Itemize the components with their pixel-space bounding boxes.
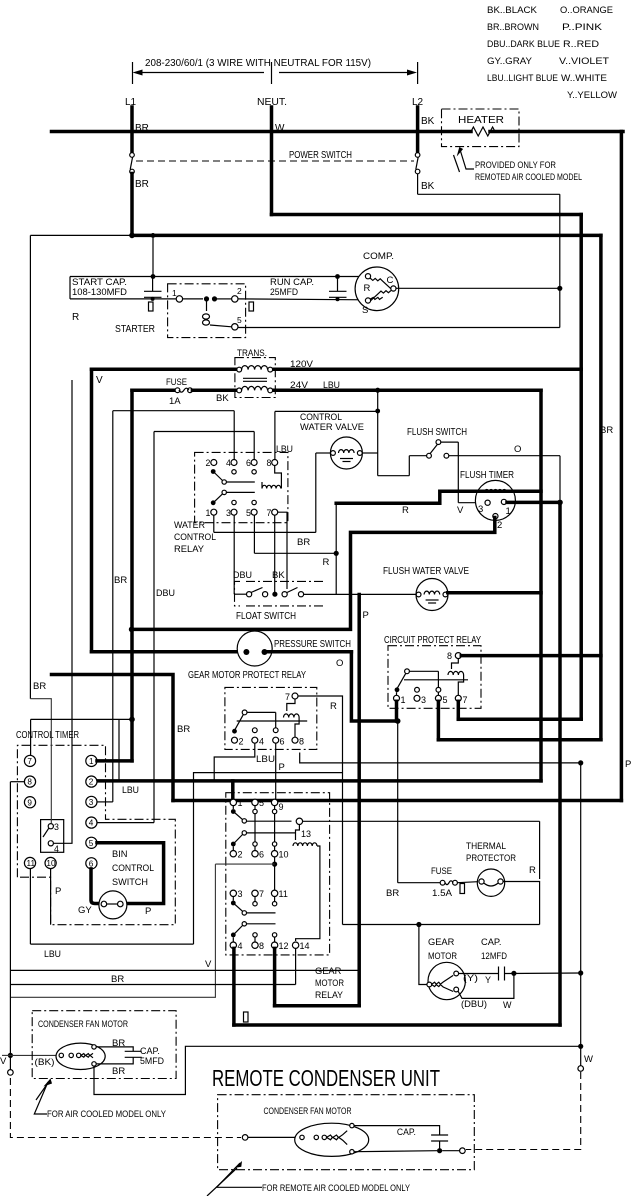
svg-text:(Y): (Y) xyxy=(463,973,478,983)
wire NEUT vertical right x=581.2 xyxy=(579,215,583,720)
heater resistor R xyxy=(471,127,495,136)
flush timer coil xyxy=(485,489,507,492)
gear motor relay terminals 2 6 10 xyxy=(230,851,236,857)
svg-text:BK..BLACK: BK..BLACK xyxy=(487,5,538,16)
svg-text:8: 8 xyxy=(267,458,272,468)
dashed V link to remote unit xyxy=(10,1078,241,1138)
water control relay pin numbers xyxy=(206,458,272,518)
control timer terminals 1-6 xyxy=(86,755,97,766)
svg-text:6: 6 xyxy=(280,737,285,747)
wire timer 5 to bin switch xyxy=(97,843,164,904)
svg-text:R: R xyxy=(364,283,371,294)
svg-text:BR: BR xyxy=(177,724,190,735)
gear motor protect relay box xyxy=(225,687,317,749)
svg-text:108-130MFD: 108-130MFD xyxy=(72,287,127,297)
gear motor protect relay terminal 7 xyxy=(292,693,298,699)
svg-text:3: 3 xyxy=(478,504,483,515)
run capacitor xyxy=(329,290,347,292)
water control relay box xyxy=(195,452,288,522)
svg-text:BR: BR xyxy=(600,425,613,436)
svg-text:1: 1 xyxy=(206,508,211,518)
svg-text:CONDENSER FAN MOTOR: CONDENSER FAN MOTOR xyxy=(38,1019,128,1029)
svg-text:1: 1 xyxy=(89,757,94,766)
svg-text:7: 7 xyxy=(463,695,468,705)
wire top bus y=131.5 with heater resistor xyxy=(52,130,472,134)
svg-text:BR: BR xyxy=(297,537,310,548)
svg-text:CIRCUIT PROTECT RELAY: CIRCUIT PROTECT RELAY xyxy=(384,635,481,646)
flush water valve coil U2 xyxy=(416,579,448,611)
water control relay terminals 2 4 6 8 xyxy=(211,460,217,466)
svg-text:R: R xyxy=(402,505,409,516)
wire L1/BR bus y=235.4 xyxy=(132,234,601,238)
wire timer 3 xyxy=(97,801,113,803)
remote cap xyxy=(354,1126,440,1135)
svg-text:W: W xyxy=(503,1000,512,1010)
wire P net bottom run xyxy=(10,969,359,971)
svg-text:GEAR: GEAR xyxy=(428,937,455,947)
svg-text:5: 5 xyxy=(443,695,448,705)
svg-text:208-230/60/1 (3 WIRE WITH NEUT: 208-230/60/1 (3 WIRE WITH NEUTRAL FOR 11… xyxy=(145,58,371,69)
svg-text:GY..GRAY: GY..GRAY xyxy=(487,56,533,67)
fuse 1.5A F2 xyxy=(398,882,440,884)
starter terminal 2 xyxy=(232,296,238,302)
wire BR branch to water relay 4 xyxy=(113,410,234,412)
wire stub x119 xyxy=(118,719,120,781)
flush switch S1 xyxy=(436,440,441,445)
dimension annotation 208-230/60/1 xyxy=(133,58,418,84)
water control relay contact A xyxy=(211,469,216,474)
node V terminal xyxy=(8,1053,13,1058)
wire cpr8 to W node xyxy=(300,753,581,763)
wire 24V to flush switch xyxy=(378,475,410,477)
wire LBU bottom run to timer 2 xyxy=(95,779,541,783)
svg-text:LBU..LIGHT BLUE: LBU..LIGHT BLUE xyxy=(487,73,558,84)
svg-text:BR: BR xyxy=(33,681,46,692)
wire to 1.5A fuse xyxy=(397,721,399,883)
svg-text:Y..YELLOW: Y..YELLOW xyxy=(567,90,618,101)
power switch contact L1 xyxy=(130,153,135,158)
wire L1 BR lower xyxy=(130,174,134,236)
control timer motor contact box xyxy=(41,820,64,853)
svg-text:PROTECTOR: PROTECTOR xyxy=(466,853,516,863)
wire O net bottom run xyxy=(234,1023,560,1027)
svg-text:DBU: DBU xyxy=(156,588,175,599)
svg-text:LBU: LBU xyxy=(276,444,293,455)
svg-text:2: 2 xyxy=(497,520,502,531)
svg-text:FLUSH TIMER: FLUSH TIMER xyxy=(460,470,514,481)
svg-text:LBU: LBU xyxy=(122,785,139,796)
svg-text:2: 2 xyxy=(89,778,94,787)
pressure switch S2 xyxy=(237,631,272,666)
wire left mid box vertical x=91.5 xyxy=(90,369,94,652)
svg-text:P: P xyxy=(363,610,369,621)
gear motor relay box xyxy=(226,793,330,955)
node W terminal xyxy=(578,1066,584,1072)
svg-text:1: 1 xyxy=(506,506,511,517)
svg-text:Y: Y xyxy=(485,975,491,985)
svg-text:FLUSH SWITCH: FLUSH SWITCH xyxy=(407,427,467,438)
svg-text:1.5A: 1.5A xyxy=(432,888,453,898)
legend color codes top right xyxy=(487,5,618,101)
wire W net from condenser motor xyxy=(94,1046,581,1094)
wire thin from L1 junction left to x=30 and down xyxy=(30,234,132,236)
svg-text:7: 7 xyxy=(285,692,290,702)
wire gear motor DBU W loop xyxy=(458,973,514,998)
svg-text:6: 6 xyxy=(89,859,94,868)
svg-text:BR: BR xyxy=(135,179,149,190)
gear motor protect relay coil xyxy=(284,714,300,718)
gear motor protect relay terminals 2 4 6 8 xyxy=(232,737,238,743)
wire protector return loop xyxy=(503,882,539,925)
svg-text:11: 11 xyxy=(279,889,288,899)
gear motor relay terminal 13 xyxy=(296,818,302,824)
wire L1 drop xyxy=(130,107,134,153)
svg-text:V: V xyxy=(96,375,103,386)
wire NEUT drop xyxy=(270,107,274,215)
circuit protect relay box xyxy=(388,646,481,709)
starter terminal 5 xyxy=(232,324,238,330)
svg-text:POWER SWITCH: POWER SWITCH xyxy=(289,150,352,161)
R feed stub from BR bus to starter top wire xyxy=(152,235,154,276)
circuit protect relay terminals 1 3 5 7 xyxy=(394,695,400,701)
wire L2 BK to compressor C : down right xyxy=(417,174,419,195)
svg-text:O: O xyxy=(514,444,521,455)
small O mark left of starter xyxy=(149,302,154,311)
svg-text:HEATER: HEATER xyxy=(458,115,504,126)
wire NEUT bus right y=214.5 xyxy=(272,213,582,217)
small O mark right of starter xyxy=(249,302,254,311)
wire flush timer 1 to O node xyxy=(507,501,560,505)
wire BR left to gear relay xyxy=(52,675,174,801)
svg-text:4: 4 xyxy=(238,941,243,951)
water control relay terminals 1 3 5 7 xyxy=(211,509,217,515)
cpr coil xyxy=(452,659,459,669)
svg-text:3: 3 xyxy=(421,695,426,705)
control timer terminals 11 10 xyxy=(24,857,35,868)
starter coil xyxy=(206,299,208,311)
wire valve to relay terminal 1 xyxy=(316,452,331,454)
svg-text:THERMAL: THERMAL xyxy=(466,841,506,851)
svg-text:CONTROL TIMER: CONTROL TIMER xyxy=(16,730,79,741)
svg-text:5: 5 xyxy=(237,315,242,325)
wire fuse 24V feed y=390.2 xyxy=(132,388,175,392)
svg-text:C: C xyxy=(387,275,394,286)
svg-text:12: 12 xyxy=(279,941,289,951)
wire timer 8 left column xyxy=(10,781,24,783)
wire DBU relay3 to float switch xyxy=(233,515,235,594)
svg-text:BR: BR xyxy=(111,974,124,985)
svg-text:1A: 1A xyxy=(169,396,181,407)
svg-text:W: W xyxy=(584,1054,593,1065)
svg-text:O..ORANGE: O..ORANGE xyxy=(560,5,613,16)
wire O vertical bus xyxy=(558,502,562,1025)
wire 120V primary bus y=369.3 xyxy=(92,368,582,372)
wire V bus to timer 7 xyxy=(31,718,132,720)
remote condenser unit box xyxy=(218,1095,475,1170)
svg-text:(BK): (BK) xyxy=(35,1057,55,1067)
gear motor protect relay contact xyxy=(242,710,247,715)
wire O net from flush switch xyxy=(449,455,560,457)
gear motor relay terminals 1 5 9 xyxy=(230,799,236,805)
svg-text:REMOTED AIR COOLED MODEL: REMOTED AIR COOLED MODEL xyxy=(475,172,582,182)
wire R net to flush timer xyxy=(336,491,541,503)
svg-text:12MFD: 12MFD xyxy=(481,951,507,961)
svg-text:8: 8 xyxy=(447,651,452,661)
svg-text:WATER: WATER xyxy=(174,520,205,530)
wire relay5 to R node xyxy=(253,515,255,553)
wire timer 10 P xyxy=(50,869,52,925)
svg-text:1: 1 xyxy=(401,695,406,705)
wire timer 4 xyxy=(97,822,154,824)
svg-text:LBU: LBU xyxy=(44,949,61,960)
svg-text:P: P xyxy=(625,759,631,770)
capacitor 12MFD C1 xyxy=(498,967,500,981)
svg-text:FOR AIR COOLED MODEL ONLY: FOR AIR COOLED MODEL ONLY xyxy=(47,1109,166,1119)
dashed W link to remote unit xyxy=(466,1072,581,1150)
wire BR vertical right x=600.9 xyxy=(599,235,603,739)
svg-text:LBU: LBU xyxy=(323,380,340,391)
svg-text:2: 2 xyxy=(239,737,244,747)
svg-text:24V: 24V xyxy=(290,380,309,391)
svg-text:BR: BR xyxy=(112,1066,125,1077)
svg-text:9: 9 xyxy=(27,798,32,807)
svg-text:R: R xyxy=(330,701,337,712)
svg-text:9: 9 xyxy=(279,802,284,812)
gear motor relay terminals 4 8 12 14 xyxy=(230,942,236,948)
svg-text:DBU..DARK BLUE: DBU..DARK BLUE xyxy=(487,39,560,50)
svg-text:5MFD: 5MFD xyxy=(140,1056,164,1066)
svg-text:R: R xyxy=(323,557,330,568)
svg-text:GEAR MOTOR PROTECT RELAY: GEAR MOTOR PROTECT RELAY xyxy=(188,670,306,681)
svg-text:COMP.: COMP. xyxy=(363,251,394,262)
svg-text:10: 10 xyxy=(46,859,56,868)
wire timer 6 to bin switch xyxy=(91,869,100,904)
wire flush timer 2 to V bus xyxy=(132,518,495,630)
svg-text:R: R xyxy=(72,312,79,323)
wire flush valve to float switch xyxy=(303,593,416,595)
svg-text:6: 6 xyxy=(259,850,264,860)
wire gear relay 4 drop O net xyxy=(232,948,236,1025)
start capacitor xyxy=(144,290,162,292)
wire terminal 13 drop xyxy=(539,821,541,879)
svg-text:FUSE: FUSE xyxy=(166,377,187,388)
wire compressor C to BK node xyxy=(396,287,560,289)
condenser fan motor box air cooled xyxy=(32,1011,176,1079)
wire gmpr4 to LBU xyxy=(214,743,255,781)
flush timer T1 xyxy=(475,480,515,520)
wire BK vertical far right x=621.4 xyxy=(620,132,624,801)
svg-text:BIN: BIN xyxy=(112,849,128,859)
junction 24V branch xyxy=(375,388,380,393)
power switch contact L2 xyxy=(415,153,420,158)
circuit protect relay terminal 8 xyxy=(455,653,461,659)
circuit protect relay contact xyxy=(405,669,410,674)
wire timer 11 down xyxy=(29,869,31,945)
svg-text:P..PINK: P..PINK xyxy=(562,22,603,33)
svg-text:2: 2 xyxy=(206,458,211,468)
svg-text:4: 4 xyxy=(54,844,59,854)
svg-text:REMOTE CONDENSER UNIT: REMOTE CONDENSER UNIT xyxy=(212,1065,440,1091)
control timer terminals 7 8 9 xyxy=(24,755,35,766)
svg-text:P: P xyxy=(55,886,61,897)
svg-text:RUN CAP.: RUN CAP. xyxy=(270,277,314,287)
svg-text:PROVIDED ONLY FOR: PROVIDED ONLY FOR xyxy=(475,160,556,170)
control water valve coil U1 xyxy=(330,437,362,469)
remote condenser fan motor M3 xyxy=(295,1123,369,1156)
remote capacitor C3 xyxy=(431,1134,448,1136)
svg-text:5: 5 xyxy=(89,839,94,848)
svg-text:2: 2 xyxy=(238,850,243,860)
wire cpr terminal 7 to NEUT vertical xyxy=(457,701,461,719)
starter dashed box xyxy=(168,284,246,338)
svg-text:CONDENSER FAN MOTOR: CONDENSER FAN MOTOR xyxy=(264,1106,352,1116)
row2 terminals 2 6 10 xyxy=(231,842,236,847)
svg-text:CAP.: CAP. xyxy=(140,1046,160,1056)
gear motor relay coil xyxy=(293,843,317,846)
svg-text:STARTER: STARTER xyxy=(115,324,155,335)
svg-text:7: 7 xyxy=(259,889,264,899)
svg-text:(DBU): (DBU) xyxy=(461,999,487,1009)
junction gray wire to V riser xyxy=(274,857,276,890)
svg-text:W..WHITE: W..WHITE xyxy=(561,73,607,84)
svg-text:FOR REMOTE AIR COOLED MODEL ON: FOR REMOTE AIR COOLED MODEL ONLY xyxy=(262,1183,410,1193)
wire BK relay7 to float switch xyxy=(274,515,276,592)
wire BR to timer inner 3 xyxy=(30,699,51,824)
wire valve to 24V LBU xyxy=(362,452,378,454)
terminal labels L1 NEUT L2 xyxy=(125,97,435,192)
bin control switch S3 xyxy=(99,891,127,919)
wire cpr terminal 5 to BR vertical xyxy=(437,701,441,740)
wire cpr terminal 1 drop xyxy=(395,701,399,721)
svg-text:4: 4 xyxy=(226,458,231,468)
svg-text:MOTOR: MOTOR xyxy=(428,951,457,961)
svg-text:CONTROL: CONTROL xyxy=(174,532,216,542)
svg-text:8: 8 xyxy=(27,778,32,787)
svg-text:1: 1 xyxy=(172,288,177,298)
svg-text:BR: BR xyxy=(386,888,399,899)
svg-text:5: 5 xyxy=(259,798,264,808)
svg-text:V: V xyxy=(205,959,212,970)
svg-text:4: 4 xyxy=(259,737,264,747)
svg-text:DBU: DBU xyxy=(233,570,252,581)
svg-text:BR..BROWN: BR..BROWN xyxy=(487,22,539,33)
heater dashed box xyxy=(442,109,520,147)
wire fuse to transformer xyxy=(192,388,541,392)
svg-text:START CAP.: START CAP. xyxy=(72,277,127,287)
svg-text:P: P xyxy=(279,762,285,773)
wire gear relay 14 drop BR net xyxy=(295,948,297,984)
svg-text:RELAY: RELAY xyxy=(174,544,204,554)
starter terminal 1 xyxy=(176,296,182,302)
svg-text:BK: BK xyxy=(216,393,229,404)
svg-text:PRESSURE SWITCH: PRESSURE SWITCH xyxy=(274,639,351,650)
wire gear relay 12 drop P net xyxy=(273,948,277,1005)
fuse 1A xyxy=(175,388,180,393)
svg-text:R..RED: R..RED xyxy=(563,39,599,50)
svg-text:2: 2 xyxy=(237,286,242,296)
control timer enclosure box xyxy=(17,745,175,924)
svg-text:LBU: LBU xyxy=(256,754,275,765)
svg-text:3: 3 xyxy=(226,508,231,518)
svg-text:V: V xyxy=(457,505,464,516)
float switch contacts xyxy=(247,592,252,597)
svg-text:BK: BK xyxy=(421,116,435,127)
svg-text:8: 8 xyxy=(259,941,264,951)
condenser fan motor M2 xyxy=(56,1043,105,1069)
row4 terminals 4 8 12 14 xyxy=(231,933,236,938)
svg-text:13: 13 xyxy=(301,829,311,839)
wire timer inner 4 riser xyxy=(53,380,72,843)
svg-text:120V: 120V xyxy=(290,359,314,370)
wire 24V to water relay coil 8 xyxy=(275,410,378,412)
wire V bus to timer 1 xyxy=(97,759,132,763)
wire starter 5 to BK node xyxy=(238,327,560,329)
svg-text:3: 3 xyxy=(89,798,94,807)
wire to pressure switch xyxy=(92,650,241,654)
wire L2 drop xyxy=(416,107,420,153)
cap 5MFD xyxy=(96,1047,133,1051)
svg-text:V: V xyxy=(0,1056,7,1067)
svg-text:RELAY: RELAY xyxy=(315,990,343,1000)
svg-text:FLUSH WATER VALVE: FLUSH WATER VALVE xyxy=(383,566,469,577)
svg-text:BR: BR xyxy=(114,575,127,586)
starter contacts xyxy=(183,298,203,300)
svg-text:8: 8 xyxy=(299,737,304,747)
svg-text:25MFD: 25MFD xyxy=(270,287,298,297)
svg-text:MOTOR: MOTOR xyxy=(315,978,344,988)
svg-text:11: 11 xyxy=(27,859,36,868)
svg-text:BK: BK xyxy=(272,570,285,581)
cap 12MFD vertical plates xyxy=(459,973,499,975)
svg-text:7: 7 xyxy=(27,757,32,766)
svg-text:V..VIOLET: V..VIOLET xyxy=(559,56,609,67)
wire starter 2 to compressor S xyxy=(238,298,366,301)
starter enclosure top wire y=276.5 xyxy=(70,276,365,278)
wire LBU vertical x=541 xyxy=(539,390,543,781)
wire timer 11 riser xyxy=(194,773,343,945)
circuit protect relay coil xyxy=(448,671,464,675)
svg-text:5: 5 xyxy=(246,508,251,518)
wire P vertical bus xyxy=(357,595,361,1006)
svg-text:O: O xyxy=(336,658,343,669)
svg-text:FLOAT SWITCH: FLOAT SWITCH xyxy=(236,611,296,622)
gear motor M1 xyxy=(428,962,465,999)
svg-text:FUSE: FUSE xyxy=(431,866,452,876)
wire BR bus to gear relay 1 xyxy=(173,799,621,803)
float switch box xyxy=(235,581,325,606)
svg-text:14: 14 xyxy=(300,941,310,951)
svg-text:SWITCH: SWITCH xyxy=(112,877,148,887)
wire V net gear relay 10 to condenser xyxy=(11,864,275,997)
wire relay7 jog to float contact 3 xyxy=(278,512,287,589)
svg-text:CAP.: CAP. xyxy=(397,1127,416,1137)
svg-text:GY: GY xyxy=(78,905,92,916)
water control relay contact B xyxy=(211,500,216,505)
svg-text:4: 4 xyxy=(89,819,94,828)
gear motor relay terminals 3 7 11 xyxy=(230,890,236,896)
svg-text:CAP.: CAP. xyxy=(481,937,502,947)
thermal protector TP1 xyxy=(477,869,504,896)
note arrow xyxy=(460,150,474,170)
svg-text:WATER VALVE: WATER VALVE xyxy=(300,422,364,432)
svg-text:6: 6 xyxy=(246,458,251,468)
wire relay6 to timer4 branch xyxy=(154,431,254,433)
svg-text:S: S xyxy=(362,305,368,316)
junction C node xyxy=(557,286,562,291)
capacitor 5MFD C2 xyxy=(125,1050,142,1052)
svg-text:BK: BK xyxy=(421,181,435,192)
svg-text:R: R xyxy=(529,865,536,876)
